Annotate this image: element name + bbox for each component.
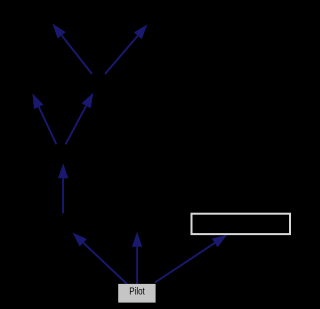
edge M to Q (middle-right inheritance arrow): [66, 93, 94, 145]
edge Pilot to L (lower-left inheritance arrow): [72, 233, 127, 285]
node R (empty bordered box, current-page node): [192, 214, 291, 234]
edge Q to T (upper-right inheritance arrow): [105, 24, 148, 74]
node Pilot (grey filled box): [118, 284, 155, 303]
edge M to P (middle-left inheritance arrow): [32, 93, 56, 144]
svg-text:Pilot: Pilot: [129, 287, 145, 298]
edge L to M (vertical inheritance arrow): [58, 163, 68, 213]
edge Pilot to R (lower-right inheritance arrow into bordered box): [155, 235, 227, 283]
edge Q to S (upper-left inheritance arrow): [52, 24, 92, 75]
edge Pilot to N (vertical inheritance arrow from Pilot): [132, 232, 142, 284]
